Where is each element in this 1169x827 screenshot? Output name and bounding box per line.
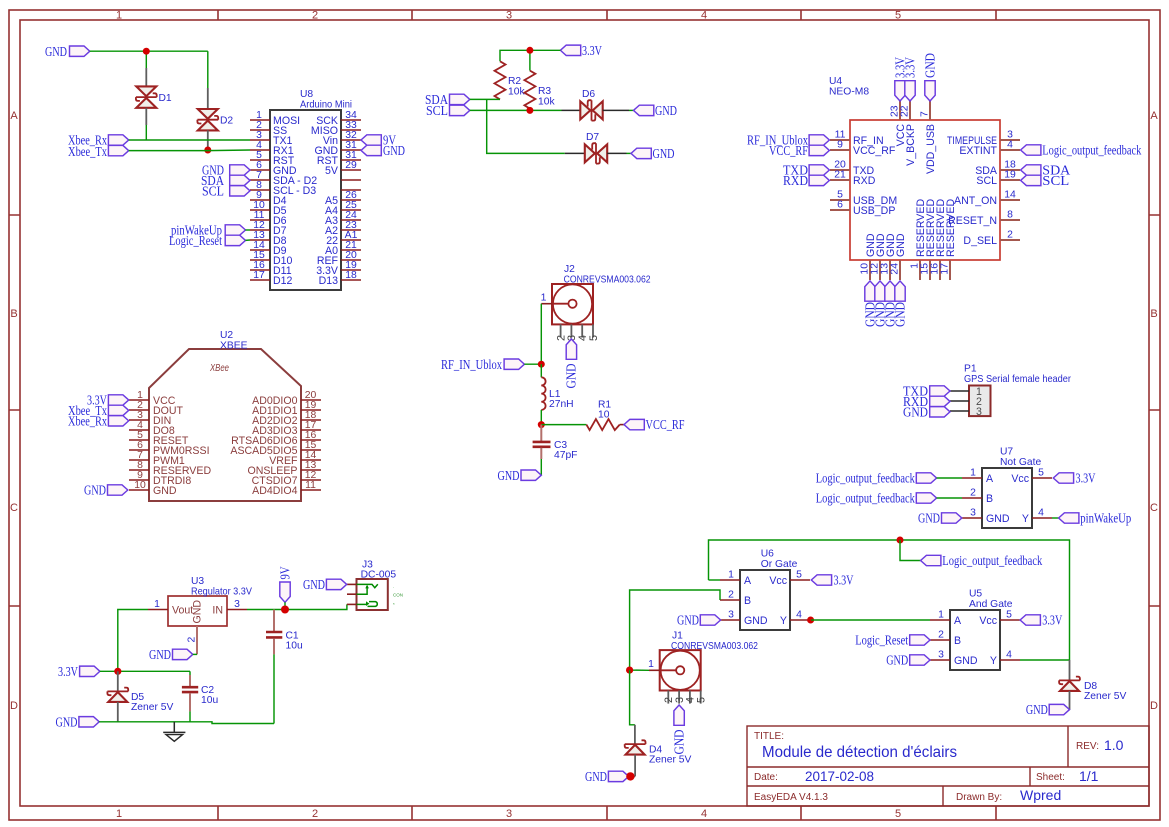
pin 8 SCL - D3: [250, 180, 316, 197]
svg-text:8: 8: [1007, 210, 1013, 221]
pin 20 TXD: [830, 160, 875, 177]
pin 2 B: [962, 488, 993, 505]
port 3.3V (U7 Vcc): [1053, 471, 1095, 486]
svg-text:GND: GND: [149, 647, 171, 662]
pin 11 RF_IN: [830, 130, 884, 147]
gate U6 Or Gate: [740, 549, 798, 631]
diode D8 Zener 5V: [1059, 677, 1126, 702]
port 3.3V (U2 pin1): [87, 393, 129, 408]
svg-text:C: C: [1150, 502, 1158, 514]
ground symbol: [163, 722, 185, 742]
junction: [114, 668, 121, 675]
pin 17 AD3DIO3: [252, 420, 321, 437]
svg-text:D12: D12: [273, 275, 293, 287]
svg-text:3.3V: 3.3V: [902, 57, 917, 78]
pin 25 A4: [325, 200, 361, 217]
svg-text:CONREVSMA003.062: CONREVSMA003.062: [671, 641, 758, 652]
pin 1 A: [962, 468, 994, 485]
svg-text:5: 5: [895, 10, 901, 22]
svg-text:3: 3: [728, 610, 734, 621]
svg-text:VCC_RF: VCC_RF: [646, 417, 685, 432]
pin 2 GND: [187, 626, 198, 654]
svg-text:Arduino Mini: Arduino Mini: [300, 100, 352, 111]
pin 18 AD2DIO2: [252, 410, 321, 427]
pin 4 Y: [1022, 508, 1052, 525]
pin 1 VCC: [129, 390, 176, 407]
svg-text:3: 3: [234, 599, 240, 610]
capacitor C2 10u: [182, 671, 219, 711]
svg-text:B: B: [954, 635, 961, 647]
svg-text:J1: J1: [672, 631, 683, 642]
svg-text:Y: Y: [990, 655, 997, 667]
svg-text:Xbee_Tx: Xbee_Tx: [68, 144, 107, 159]
svg-text:SCL: SCL: [976, 175, 997, 187]
svg-text:5: 5: [796, 570, 802, 581]
pin 34 SCK: [316, 110, 361, 127]
pin 5 USB_DM: [830, 190, 897, 207]
svg-text:Regulator 3.3V: Regulator 3.3V: [191, 587, 252, 598]
svg-text:2: 2: [1007, 230, 1013, 241]
pin 5 Vcc: [1011, 468, 1052, 485]
wire R3 bottom: [529, 109, 531, 111]
junction: [281, 606, 289, 614]
gate U5 And Gate: [950, 589, 1013, 671]
svg-text:3.3V: 3.3V: [834, 573, 854, 588]
port Logic_output_feedback (U7 B): [816, 491, 937, 506]
pin 26 A5: [325, 190, 361, 207]
pin 3 IN: [227, 599, 247, 610]
wire U6 B from J1: [630, 590, 720, 670]
svg-text:4: 4: [701, 808, 707, 820]
port GND (U4 pin10): [862, 281, 877, 327]
wire D8 top lead: [1069, 660, 1071, 680]
svg-text:GND: GND: [498, 468, 520, 483]
IC U4 NEO-M8: [829, 76, 1000, 260]
port GND (J3 pin1): [303, 577, 347, 592]
port GND (U4 VDD_USB): [922, 53, 937, 101]
svg-text:17: 17: [253, 270, 265, 281]
svg-text:3: 3: [970, 508, 976, 519]
svg-text:U5: U5: [969, 589, 982, 600]
port GND (U4 pin12): [872, 281, 887, 327]
svg-text:GND: GND: [922, 53, 937, 78]
svg-text:4: 4: [701, 10, 707, 22]
pin 24 GND: [890, 233, 908, 280]
svg-text:6: 6: [837, 200, 843, 211]
port 3.3V (U5 Vcc): [1020, 613, 1062, 628]
pin nc U8 right: [341, 189, 361, 191]
diode D6 (TVS): [580, 89, 602, 121]
wire J2 pin1 down: [540, 304, 542, 365]
pin 4 RX1: [250, 140, 294, 157]
pin 3 GND: [720, 610, 768, 627]
port Logic_output_feedback (U4 EXTINT): [1021, 143, 1142, 158]
pin 3 GND: [962, 508, 1010, 525]
pin 5 Vcc: [769, 570, 810, 587]
capacitor C1 10u: [266, 610, 303, 655]
svg-text:U6: U6: [761, 549, 774, 560]
svg-text:Vcc: Vcc: [769, 575, 787, 587]
diode D1 (TVS): [136, 86, 172, 107]
svg-text:A: A: [986, 473, 994, 485]
pin 8 RESET_N: [948, 210, 1020, 227]
svg-text:Logic_output_feedback: Logic_output_feedback: [1042, 143, 1141, 158]
IC U2 XBEE: [149, 330, 301, 501]
pin 1 P1: [950, 386, 982, 398]
wire down to D4: [630, 670, 635, 725]
wire U7 A: [937, 477, 962, 479]
pin 3 P1: [950, 406, 982, 418]
port SCL (U8 pin 8): [202, 183, 250, 198]
pin 8 RESERVED: [129, 460, 211, 477]
port RF_IN_Ublox: [441, 357, 524, 372]
svg-text:GND: GND: [585, 769, 607, 784]
wire D4 bottom lead: [634, 755, 636, 777]
wire GND net top: [90, 50, 208, 52]
port GND (U3 pin2): [149, 647, 197, 662]
port 3.3V (U4 V_BCKP): [902, 57, 917, 101]
svg-text:GND: GND: [653, 146, 675, 161]
connector J1 CONREVSMA003.062: [660, 631, 759, 691]
svg-text:GND: GND: [56, 714, 78, 729]
wire U6 A: [709, 579, 721, 581]
pin 21 A0: [325, 240, 361, 257]
svg-text:RXD: RXD: [853, 175, 876, 187]
svg-text:GND: GND: [918, 511, 940, 526]
pin 7 PWM1: [129, 450, 185, 467]
diode D4 Zener 5V: [625, 740, 692, 765]
svg-text:GND: GND: [564, 363, 579, 388]
junction: [538, 421, 545, 428]
wire SDA: [470, 98, 500, 100]
pin 3 TX1: [250, 130, 293, 147]
port TXD (U4): [783, 163, 829, 178]
svg-text:A: A: [1150, 110, 1158, 122]
junction: [897, 537, 904, 544]
port 3.3V (U6 Vcc): [811, 573, 853, 588]
svg-text:Or Gate: Or Gate: [761, 559, 798, 570]
pin 3 TIMEPULSE: [947, 130, 1020, 147]
wire R3 top: [529, 50, 531, 70]
svg-text:Logic_output_feedback: Logic_output_feedback: [942, 553, 1042, 568]
port GND (rail): [56, 714, 100, 729]
junction: [626, 772, 634, 780]
svg-text:RESERVED: RESERVED: [945, 199, 957, 257]
svg-text:SCL: SCL: [426, 103, 448, 118]
pin 15 RESERVED: [920, 199, 938, 280]
port Logic_Reset (U5 B): [855, 633, 930, 648]
wire C3 to GND: [540, 459, 542, 475]
svg-text:10: 10: [598, 410, 610, 421]
pin 5 RST: [250, 150, 295, 167]
svg-text:B: B: [986, 493, 993, 505]
svg-text:Logic_output_feedback: Logic_output_feedback: [816, 471, 915, 486]
pin 1 A: [720, 570, 752, 587]
wire U7 Y: [1052, 517, 1059, 519]
pin 2 SS: [250, 120, 287, 137]
pin 11 D6: [250, 210, 287, 227]
svg-text:GND: GND: [895, 233, 907, 257]
svg-text:GND: GND: [84, 483, 106, 498]
pin 2 P1: [950, 396, 982, 408]
svg-text:B: B: [10, 308, 17, 320]
wire D1 top lead: [145, 51, 147, 68]
svg-text:Y: Y: [780, 615, 787, 627]
pin 22 V_BCKP: [900, 101, 918, 166]
port 3.3V (U4 VCC): [892, 57, 907, 101]
svg-text:3.3V: 3.3V: [58, 664, 78, 679]
port GND (J2 pin3): [564, 339, 579, 389]
wire 9V: [284, 602, 286, 609]
pin 32 Vin: [323, 130, 361, 147]
junction: [807, 617, 814, 624]
pin 2 J2: [555, 324, 567, 341]
pin 6 GND: [250, 160, 297, 177]
svg-text:2017-02-08: 2017-02-08: [805, 768, 874, 784]
wire D7 to GND: [607, 152, 626, 154]
pin 16 RESERVED: [930, 199, 948, 280]
port VCC_RF: [624, 417, 685, 432]
svg-text:Zener 5V: Zener 5V: [649, 755, 691, 766]
pin 2 B: [930, 630, 961, 647]
resistor R1 10: [586, 400, 624, 431]
pin 5 J1: [696, 691, 708, 704]
svg-text:21: 21: [834, 170, 846, 181]
svg-text:GND: GND: [192, 600, 204, 624]
svg-text:D1: D1: [159, 93, 172, 104]
svg-text:3.3V: 3.3V: [1076, 471, 1096, 486]
port GND (D7): [631, 146, 675, 161]
svg-text:GND: GND: [153, 485, 177, 497]
svg-text:1: 1: [116, 808, 122, 820]
svg-text:47pF: 47pF: [554, 450, 577, 461]
svg-text:D: D: [1150, 700, 1158, 712]
svg-text:VCC_RF: VCC_RF: [853, 145, 896, 157]
pin 5 J2: [588, 324, 600, 341]
svg-text:Sheet:: Sheet:: [1036, 772, 1065, 783]
svg-text:5: 5: [1038, 468, 1044, 479]
svg-text:4: 4: [796, 610, 802, 621]
connector P1 GPS Serial female header: [964, 364, 1072, 417]
pin 20 AD0DIO0: [252, 390, 321, 407]
port RXD (U4): [783, 173, 829, 188]
svg-text:3: 3: [938, 650, 944, 661]
wire U6 Y to U5 A: [811, 619, 930, 621]
svg-text:4: 4: [1007, 140, 1013, 151]
pin 14 D9: [250, 240, 287, 257]
svg-text:1: 1: [970, 468, 976, 479]
svg-text:D_SEL: D_SEL: [963, 235, 997, 247]
svg-text:V_BCKP: V_BCKP: [905, 124, 917, 166]
pin 4 Y: [780, 610, 810, 627]
pin 1 Vout: [148, 599, 168, 610]
pin 15 D10: [250, 250, 293, 267]
svg-text:1.0: 1.0: [1104, 737, 1124, 753]
pin 24 A3: [325, 210, 361, 227]
svg-text:3.3V: 3.3V: [582, 43, 602, 58]
pin 4 EXTINT: [959, 140, 1020, 157]
pin 33 MISO: [311, 120, 361, 137]
pin 9 D4: [250, 190, 287, 207]
svg-text:U3: U3: [191, 576, 204, 587]
pin 3 DIN: [129, 410, 171, 427]
svg-text:Module de détection d'éclairs: Module de détection d'éclairs: [762, 744, 957, 761]
wire D2 top lead: [207, 51, 209, 88]
svg-text:2: 2: [970, 488, 976, 499]
svg-text:J2: J2: [564, 264, 575, 275]
svg-text:Xbee_Rx: Xbee_Rx: [68, 413, 107, 428]
svg-text:GND: GND: [45, 44, 67, 59]
pin 7 SDA - D2: [250, 170, 317, 187]
svg-text:.: .: [393, 584, 394, 589]
wire D6 to GND: [603, 109, 629, 111]
svg-text:3: 3: [976, 406, 982, 418]
pin 12 D7: [250, 220, 287, 237]
wire D1 bottom lead: [145, 108, 147, 125]
svg-text:Drawn By:: Drawn By:: [956, 792, 1002, 803]
pin 19 AD1DIO1: [252, 400, 321, 417]
port pinWakeUp (U8 pin 12): [171, 223, 250, 238]
wire U5 Y to D8: [1020, 659, 1070, 661]
svg-text:GND: GND: [677, 613, 699, 628]
port RF_IN_Ublox (U4 RF_IN): [747, 133, 829, 148]
pin 31 GND: [314, 140, 361, 157]
svg-text:GPS Serial female header: GPS Serial female header: [964, 374, 1072, 385]
wire D2 bottom lead: [207, 130, 209, 150]
svg-text:2: 2: [312, 10, 318, 22]
svg-text:A: A: [954, 615, 962, 627]
IC U8 Arduino Mini: [270, 89, 352, 290]
pin 10 GND: [860, 233, 878, 280]
svg-text:GND: GND: [954, 655, 978, 667]
svg-text:C: C: [10, 502, 18, 514]
wire SDA to D7: [487, 99, 565, 153]
svg-text:IN: IN: [212, 605, 223, 617]
pin 4 DO8: [129, 420, 175, 437]
svg-text:Not Gate: Not Gate: [1000, 457, 1041, 468]
svg-text:U2: U2: [220, 330, 233, 341]
port SCL: [426, 103, 470, 118]
port Xbee_Rx: [68, 133, 129, 148]
pin 1 J3: [347, 583, 357, 585]
wire Vout left and down: [118, 610, 148, 672]
pin 16 D11: [250, 260, 292, 277]
svg-text:Vcc: Vcc: [1011, 473, 1029, 485]
wire junction to R1: [541, 424, 586, 426]
svg-text:D2: D2: [220, 116, 233, 127]
svg-text:Logic_Reset: Logic_Reset: [855, 633, 908, 648]
svg-text:2: 2: [312, 808, 318, 820]
svg-text:GND: GND: [655, 103, 677, 118]
port Xbee_Tx (U2 pin2): [68, 403, 129, 418]
svg-text:5: 5: [696, 697, 708, 703]
pin 6 USB_DP: [830, 200, 895, 217]
svg-text:18: 18: [345, 270, 357, 281]
port GND (J1 pin3): [671, 705, 686, 755]
connector J2 CONREVSMA003.062: [552, 264, 651, 324]
svg-text:A: A: [10, 110, 18, 122]
svg-text:D13: D13: [319, 275, 339, 287]
port GND (U6 pin3): [677, 613, 721, 628]
pin 3 GND: [930, 650, 978, 667]
wire SCL: [470, 109, 562, 111]
pin 13 ONSLEEP: [247, 460, 321, 477]
svg-text:CONREVSMA003.062: CONREVSMA003.062: [564, 275, 651, 286]
svg-text:ANT_ON: ANT_ON: [954, 195, 997, 207]
svg-text:2: 2: [187, 637, 198, 643]
port SCL (U4): [1021, 173, 1070, 188]
svg-text:AD4DIO4: AD4DIO4: [252, 485, 297, 497]
port Logic_output_feedback (U7 A): [816, 471, 937, 486]
pin 31 RST: [317, 150, 361, 167]
svg-text:VCC_RF: VCC_RF: [769, 143, 808, 158]
pin 3 J3: [347, 603, 357, 605]
svg-text:2: 2: [728, 590, 734, 601]
pin 4 J2: [577, 324, 589, 341]
svg-text:19: 19: [1004, 170, 1016, 181]
port 9V (U8 pin 32): [361, 133, 396, 148]
svg-text:1: 1: [938, 610, 944, 621]
IC U3 Regulator 3.3V: [168, 576, 252, 626]
svg-text:29: 29: [345, 160, 357, 171]
svg-text:5: 5: [1006, 610, 1012, 621]
svg-text:GND: GND: [986, 513, 1010, 525]
pin 13 D8: [250, 230, 287, 247]
wire J1 pin1: [630, 669, 649, 671]
svg-text:1: 1: [154, 599, 160, 610]
pin A1 22: [326, 230, 361, 247]
svg-text:TITLE:: TITLE:: [754, 731, 784, 742]
svg-text:10k: 10k: [508, 87, 525, 98]
wire 3.3V node: [100, 670, 190, 672]
pin 2 DOUT: [129, 400, 184, 417]
wire ground rail: [99, 722, 274, 724]
diode D5 Zener 5V: [107, 688, 173, 713]
svg-text:EasyEDA V4.1.3: EasyEDA V4.1.3: [754, 792, 828, 803]
svg-text:Logic_Reset: Logic_Reset: [169, 233, 222, 248]
pin 16 RTSAD6DIO6: [231, 430, 321, 447]
svg-text:VDD_USB: VDD_USB: [925, 124, 937, 174]
port SDA (U4): [1021, 163, 1071, 178]
pin 1 J2: [541, 293, 552, 304]
svg-text:U4: U4: [829, 76, 842, 87]
svg-text:3: 3: [506, 10, 512, 22]
svg-text:USB_DP: USB_DP: [853, 205, 895, 217]
svg-text:10: 10: [134, 480, 146, 491]
svg-text:7: 7: [920, 111, 931, 117]
svg-text:Date:: Date:: [754, 772, 778, 783]
svg-text:3: 3: [506, 808, 512, 820]
pin 1 MOSI: [250, 110, 300, 127]
svg-text:5V: 5V: [325, 165, 339, 177]
junction: [204, 147, 211, 154]
port Logic_output_feedback (rail): [921, 553, 1043, 568]
svg-text:RXD: RXD: [783, 173, 808, 188]
port GND (U8 pin 31): [361, 143, 405, 158]
svg-text:And Gate: And Gate: [969, 599, 1013, 610]
svg-text:5: 5: [588, 335, 600, 341]
connector J3 DC-005: [357, 560, 404, 611]
svg-text:GND: GND: [903, 404, 928, 419]
svg-text:10k: 10k: [538, 97, 555, 108]
pin 17 RESERVED: [940, 199, 958, 280]
svg-text:A: A: [744, 575, 752, 587]
port 3.3V (pullups): [560, 43, 602, 58]
port GND (U8 pin 6): [202, 163, 250, 178]
port GND (top left): [45, 44, 90, 59]
svg-text:Logic_output_feedback: Logic_output_feedback: [816, 491, 915, 506]
pin 15 ASCAD5DIO5: [230, 440, 321, 457]
